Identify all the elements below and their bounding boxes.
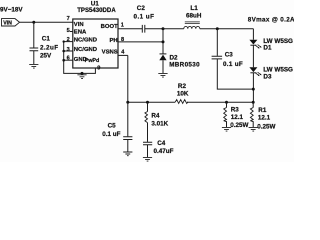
svg-text:VIN: VIN — [3, 20, 12, 26]
node R4 junction — [146, 101, 149, 104]
svg-text:C1: C1 — [42, 36, 51, 43]
port VIN — [2, 19, 20, 26]
svg-text:9V−18V: 9V−18V — [0, 6, 23, 13]
label C1 value — [40, 36, 58, 60]
svg-text:8: 8 — [121, 37, 124, 43]
pin 7 label — [67, 16, 70, 22]
svg-text:VSNS: VSNS — [102, 49, 118, 55]
svg-text:0.1 uF: 0.1 uF — [134, 13, 155, 20]
LED D3 — [249, 67, 257, 72]
ground under R1 — [249, 127, 258, 131]
svg-text:NC/GND: NC/GND — [74, 47, 97, 53]
svg-text:TPS5430DDA: TPS5430DDA — [77, 8, 116, 14]
pin 9 PwPd stub — [82, 68, 95, 73]
svg-text:9: 9 — [97, 65, 100, 71]
svg-text:LW W5SG: LW W5SG — [263, 67, 293, 74]
inductor L1 — [163, 28, 184, 30]
svg-text:PH: PH — [110, 38, 118, 44]
svg-text:D1: D1 — [263, 45, 272, 52]
node R1 junction — [252, 101, 255, 104]
resistor R2 — [175, 100, 188, 104]
svg-text:2.2uF: 2.2uF — [40, 45, 58, 52]
capacitor C1 — [30, 48, 39, 51]
svg-text:C3: C3 — [225, 52, 234, 59]
svg-text:0.1 uF: 0.1 uF — [223, 61, 243, 68]
svg-text:10K: 10K — [177, 91, 189, 98]
svg-text:3: 3 — [67, 47, 70, 53]
svg-text:R2: R2 — [178, 83, 187, 90]
ground under C5 — [123, 152, 132, 156]
pin 5 stub — [70, 31, 73, 33]
wire C1 branch — [33, 22, 35, 47]
svg-text:3.01K: 3.01K — [151, 121, 168, 128]
node R3 junction — [225, 101, 228, 104]
pin 3 stub — [64, 50, 73, 52]
capacitor C3 — [216, 29, 218, 56]
svg-text:C5: C5 — [108, 123, 117, 130]
svg-text:1: 1 — [121, 22, 124, 28]
wire VIN to pin7 — [20, 21, 73, 23]
resistor R1 — [252, 102, 254, 107]
svg-text:2: 2 — [67, 37, 70, 43]
svg-text:12.1: 12.1 — [258, 115, 271, 122]
svg-text:0.47uF: 0.47uF — [154, 148, 174, 155]
svg-text:0.1 uF: 0.1 uF — [102, 131, 120, 138]
node VSNS junction — [126, 101, 129, 104]
capacitor C2 — [142, 25, 145, 33]
svg-text:D3: D3 — [263, 74, 272, 81]
ground under R3 — [222, 127, 231, 131]
op-amp U1 TPS5430DDA body — [73, 19, 118, 68]
wire switch node vertical — [162, 29, 164, 54]
resistor R3 — [226, 102, 228, 107]
svg-text:0.25W: 0.25W — [257, 123, 275, 130]
pin 2 stub — [64, 41, 73, 43]
wire VSNS vertical — [127, 55, 129, 102]
capacitor C5 — [127, 102, 129, 136]
capacitor C4 — [143, 142, 152, 145]
wire feedback row — [128, 101, 253, 103]
svg-text:68uH: 68uH — [186, 13, 202, 20]
svg-text:ENA: ENA — [74, 30, 87, 36]
svg-text:NC/GND: NC/GND — [74, 37, 97, 43]
svg-text:VIN: VIN — [74, 22, 84, 28]
node C3 return junction — [252, 88, 255, 91]
svg-text:C2: C2 — [137, 5, 146, 12]
pin 6 stub — [64, 59, 73, 61]
svg-text:C4: C4 — [157, 140, 166, 147]
pin 4 VSNS stub — [118, 54, 128, 56]
node ground junction — [81, 72, 84, 75]
node C3 junction — [216, 27, 219, 30]
svg-text:L1: L1 — [190, 5, 198, 12]
node C1 junction — [32, 21, 35, 24]
svg-text:R1: R1 — [258, 107, 267, 114]
svg-text:8Vmax @ 0.2A: 8Vmax @ 0.2A — [248, 17, 294, 24]
diode D2 MBR0530 — [160, 53, 167, 55]
svg-text:12.1: 12.1 — [231, 114, 244, 121]
svg-text:R3: R3 — [231, 106, 240, 113]
svg-text:6: 6 — [67, 55, 70, 61]
ground under C4 — [143, 157, 152, 161]
node PH junction — [162, 40, 165, 43]
svg-text:0.25W: 0.25W — [230, 122, 248, 129]
pin 8 PH stub — [118, 41, 163, 43]
svg-text:BOOT: BOOT — [101, 24, 118, 30]
IC pin names — [74, 22, 118, 64]
svg-text:U1: U1 — [91, 1, 100, 8]
net label 9V-18V — [0, 6, 23, 13]
svg-text:25V: 25V — [40, 53, 52, 60]
wire NC/GND bus — [64, 42, 82, 74]
svg-text:5: 5 — [67, 28, 70, 34]
svg-text:PwPd: PwPd — [85, 58, 100, 64]
resistor R4 — [147, 102, 149, 111]
wire LED string — [252, 29, 254, 40]
label output — [248, 17, 295, 24]
svg-text:MBR0530: MBR0530 — [169, 61, 200, 68]
pin 1 BOOT stub — [118, 28, 142, 30]
ground under U1 — [77, 75, 86, 79]
svg-text:7: 7 — [67, 16, 70, 22]
ground under D2 — [158, 73, 167, 77]
svg-text:4: 4 — [121, 50, 125, 56]
svg-text:D2: D2 — [170, 54, 179, 61]
node switch junction top — [162, 27, 165, 30]
ground under C1 — [29, 64, 38, 68]
svg-text:R4: R4 — [151, 113, 160, 120]
LED D1 — [249, 40, 257, 45]
